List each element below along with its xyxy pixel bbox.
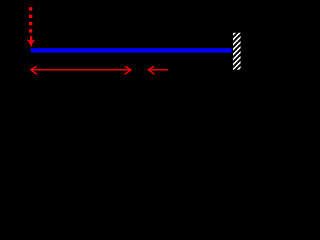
beam (blue) xyxy=(31,48,232,52)
dimension arrow x (double-headed, below beam left span) xyxy=(31,66,131,74)
force arrow P (red dashed, pointing down at free end of beam) xyxy=(27,7,36,47)
dimension arrow L (left-pointing, below beam middle) xyxy=(148,66,168,74)
fixed support wall (hatched) xyxy=(230,19,244,78)
